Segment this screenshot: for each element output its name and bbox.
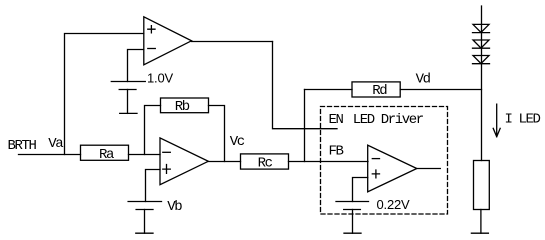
wire battery to ground — [127, 90, 129, 114]
LED D2 — [473, 40, 490, 48]
ground — [344, 232, 361, 234]
wire Ra to U2 minus input — [129, 154, 161, 156]
svg-text:Vc: Vc — [230, 134, 245, 150]
resistor Rc — [241, 154, 289, 169]
wire U1 output — [192, 41, 273, 43]
op-amp U2 minus sign — [163, 151, 171, 153]
LED Driver dashed box — [321, 107, 448, 215]
current arrow I LED — [493, 104, 500, 137]
op-amp U3 minus sign — [372, 158, 379, 160]
wire Rd to Vd node — [400, 89, 481, 91]
wire to Rd — [305, 89, 353, 91]
wire U1 output down to EN — [273, 42, 338, 129]
wire BRTH input — [19, 154, 81, 156]
svg-text:BRTH: BRTH — [8, 138, 37, 154]
battery 0.22V — [336, 202, 369, 210]
op-amp U3 plus sign — [372, 170, 379, 178]
wire Rc to FB input — [289, 161, 369, 163]
LED D1 — [473, 24, 490, 32]
wire node Va up to U1 plus input — [65, 34, 144, 155]
wire U3 plus input — [353, 178, 368, 202]
wire Vb battery to ground — [144, 210, 146, 234]
op-amp U2 — [160, 138, 208, 185]
svg-text:Ra: Ra — [99, 147, 114, 163]
svg-text:EN: EN — [329, 112, 344, 128]
wire battery to ground — [352, 210, 354, 234]
op-amp U1 plus sign — [148, 26, 155, 33]
op-amp U2 plus sign — [163, 165, 171, 174]
wire FB node up to Rd — [304, 90, 306, 162]
wire U2 output — [208, 161, 240, 163]
svg-text:Vb: Vb — [167, 199, 182, 215]
battery 1.0V — [111, 82, 145, 90]
svg-text:Rc: Rc — [258, 156, 273, 172]
op-amp U1 minus sign — [148, 48, 156, 50]
svg-text:1.0V: 1.0V — [147, 71, 173, 86]
LED D3 — [473, 56, 490, 64]
wire Rsense to ground — [480, 210, 482, 234]
svg-text:Vd: Vd — [416, 72, 431, 88]
wire LED string rail — [481, 6, 483, 161]
ground — [471, 232, 488, 234]
svg-text:FB: FB — [329, 143, 344, 159]
battery Vb — [128, 202, 161, 210]
svg-text:LED Driver: LED Driver — [353, 112, 424, 128]
resistor Ra — [81, 145, 129, 160]
ground — [120, 112, 137, 114]
svg-text:Rb: Rb — [175, 99, 190, 115]
wire Rb right lead to U2 output — [209, 106, 225, 162]
op-amp U1 — [144, 17, 192, 65]
resistor Rd — [352, 82, 400, 97]
svg-text:I LED: I LED — [505, 111, 541, 127]
ground — [136, 232, 153, 234]
wire U2 plus input — [146, 170, 161, 202]
svg-text:Rd: Rd — [372, 83, 387, 99]
svg-text:0.22V: 0.22V — [377, 197, 411, 212]
wire Rb left lead to U2 minus input — [145, 106, 161, 155]
wire U1 minus input — [128, 50, 144, 82]
resistor Rb — [161, 98, 209, 113]
svg-text:Va: Va — [48, 136, 63, 152]
wire U3 output — [417, 168, 441, 170]
resistor Rsense — [474, 161, 490, 210]
op-amp U3 — [368, 145, 417, 192]
